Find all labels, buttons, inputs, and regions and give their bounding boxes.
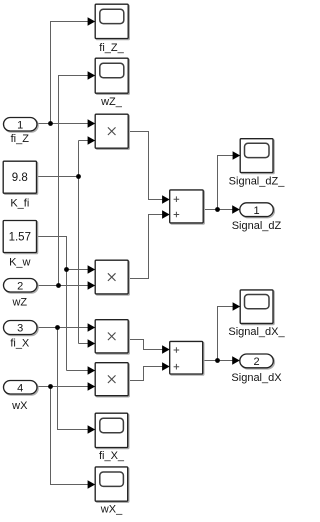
svg-text:Signal_dX: Signal_dX — [231, 372, 282, 384]
svg-text:1: 1 — [17, 119, 23, 131]
svg-text:Signal_dZ_: Signal_dZ_ — [229, 176, 286, 188]
svg-text:wX_: wX_ — [100, 504, 123, 516]
svg-text:wZ_: wZ_ — [100, 96, 123, 108]
svg-text:4: 4 — [17, 382, 23, 394]
svg-text:fi_Z: fi_Z — [11, 133, 30, 145]
svg-text:K_fi: K_fi — [10, 197, 29, 209]
svg-text:fi_X_: fi_X_ — [99, 450, 125, 462]
svg-text:Signal_dZ: Signal_dZ — [232, 220, 282, 232]
svg-text:2: 2 — [253, 356, 259, 368]
svg-text:9.8: 9.8 — [12, 172, 28, 184]
svg-text:1.57: 1.57 — [9, 232, 31, 244]
svg-text:wX: wX — [11, 400, 28, 412]
svg-text:Signal_dX_: Signal_dX_ — [228, 326, 285, 338]
svg-text:2: 2 — [17, 280, 23, 292]
svg-text:fi_X: fi_X — [10, 338, 30, 350]
svg-text:fi_Z_: fi_Z_ — [99, 42, 124, 54]
svg-text:wZ: wZ — [11, 297, 27, 309]
svg-text:3: 3 — [17, 323, 23, 335]
svg-text:K_w: K_w — [9, 257, 30, 269]
svg-text:1: 1 — [253, 205, 259, 217]
